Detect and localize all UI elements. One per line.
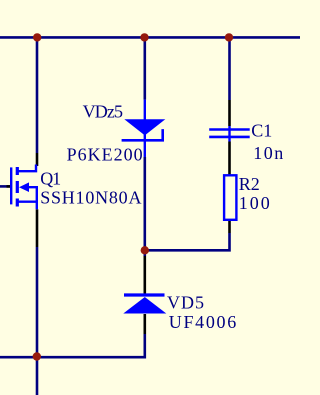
zener VDz5 (P6KE200): [122, 100, 166, 157]
diode VD5 (UF4006): [123, 295, 166, 314]
wire: left vertical branch upper (drain net): [36, 37, 39, 153]
VDz5 cathode bar with hook: [122, 129, 163, 140]
C1 center link: [228, 126, 230, 142]
junction dot top-middle: [140, 33, 148, 41]
Q1 gate bar: [10, 167, 12, 204]
svg-text:100: 100: [239, 193, 272, 213]
junction dot bottom-left: [33, 352, 41, 360]
pin: C1 bottom / R2 top: [228, 142, 231, 175]
svg-text:10n: 10n: [253, 143, 285, 163]
wire: middle branch above zener: [144, 37, 147, 99]
pin: VD5 anode (top): [144, 256, 147, 294]
svg-text:UF4006: UF4006: [169, 312, 238, 332]
pin: VD5 cathode (bottom): [144, 314, 147, 334]
Q1 drain stub and riser: [17, 165, 36, 172]
C1 top plate: [209, 128, 250, 131]
Q1 body line and source connector: [29, 187, 37, 202]
svg-text:R2: R2: [239, 174, 260, 194]
pin: Q1 gate: [0, 185, 11, 188]
Q1 channel segment top: [16, 167, 19, 175]
wire: bottom horizontal bus: [0, 334, 145, 357]
VDz5 top stub: [144, 100, 146, 120]
VD5 cathode bar: [124, 293, 165, 296]
junction dot top-left: [33, 33, 41, 41]
Q1 channel segment bottom: [16, 199, 19, 207]
svg-text:C1: C1: [251, 121, 272, 141]
junction dot top-right: [225, 33, 233, 41]
wire: top horizontal bus: [0, 36, 300, 39]
svg-text:P6KE200: P6KE200: [67, 144, 144, 164]
svg-text:Q1: Q1: [40, 168, 60, 188]
VDz5 triangle: [124, 119, 165, 135]
pin: Q1 drain: [36, 153, 39, 166]
pin: C1 top: [228, 100, 231, 126]
junction dot node VD5/R2: [141, 246, 149, 254]
Q1 body arrow: [19, 182, 29, 192]
Q1 channel segment middle: [16, 181, 19, 193]
C1 bottom plate: [209, 136, 250, 139]
Q1 source stub: [17, 202, 37, 210]
wire: left vertical branch lower (source net): [36, 247, 39, 395]
wire: right branch above C1: [228, 37, 231, 100]
transistor Q1 (MOSFET SSH10N80A): [11, 165, 37, 210]
svg-text:VDz5: VDz5: [83, 101, 123, 121]
resistor R2 (100): [224, 175, 236, 220]
VD5 triangle: [123, 297, 166, 314]
capacitor C1 (10n): [209, 126, 250, 142]
pin: R2 bottom: [228, 221, 231, 234]
svg-text:VD5: VD5: [167, 292, 205, 312]
wire: right branch below R2 with corner to node: [145, 233, 230, 250]
VDz5 apex stub: [144, 133, 146, 157]
wire: middle branch between zener and node: [144, 157, 147, 256]
svg-text:SSH10N80A: SSH10N80A: [40, 188, 142, 208]
pin: Q1 source: [36, 209, 39, 247]
